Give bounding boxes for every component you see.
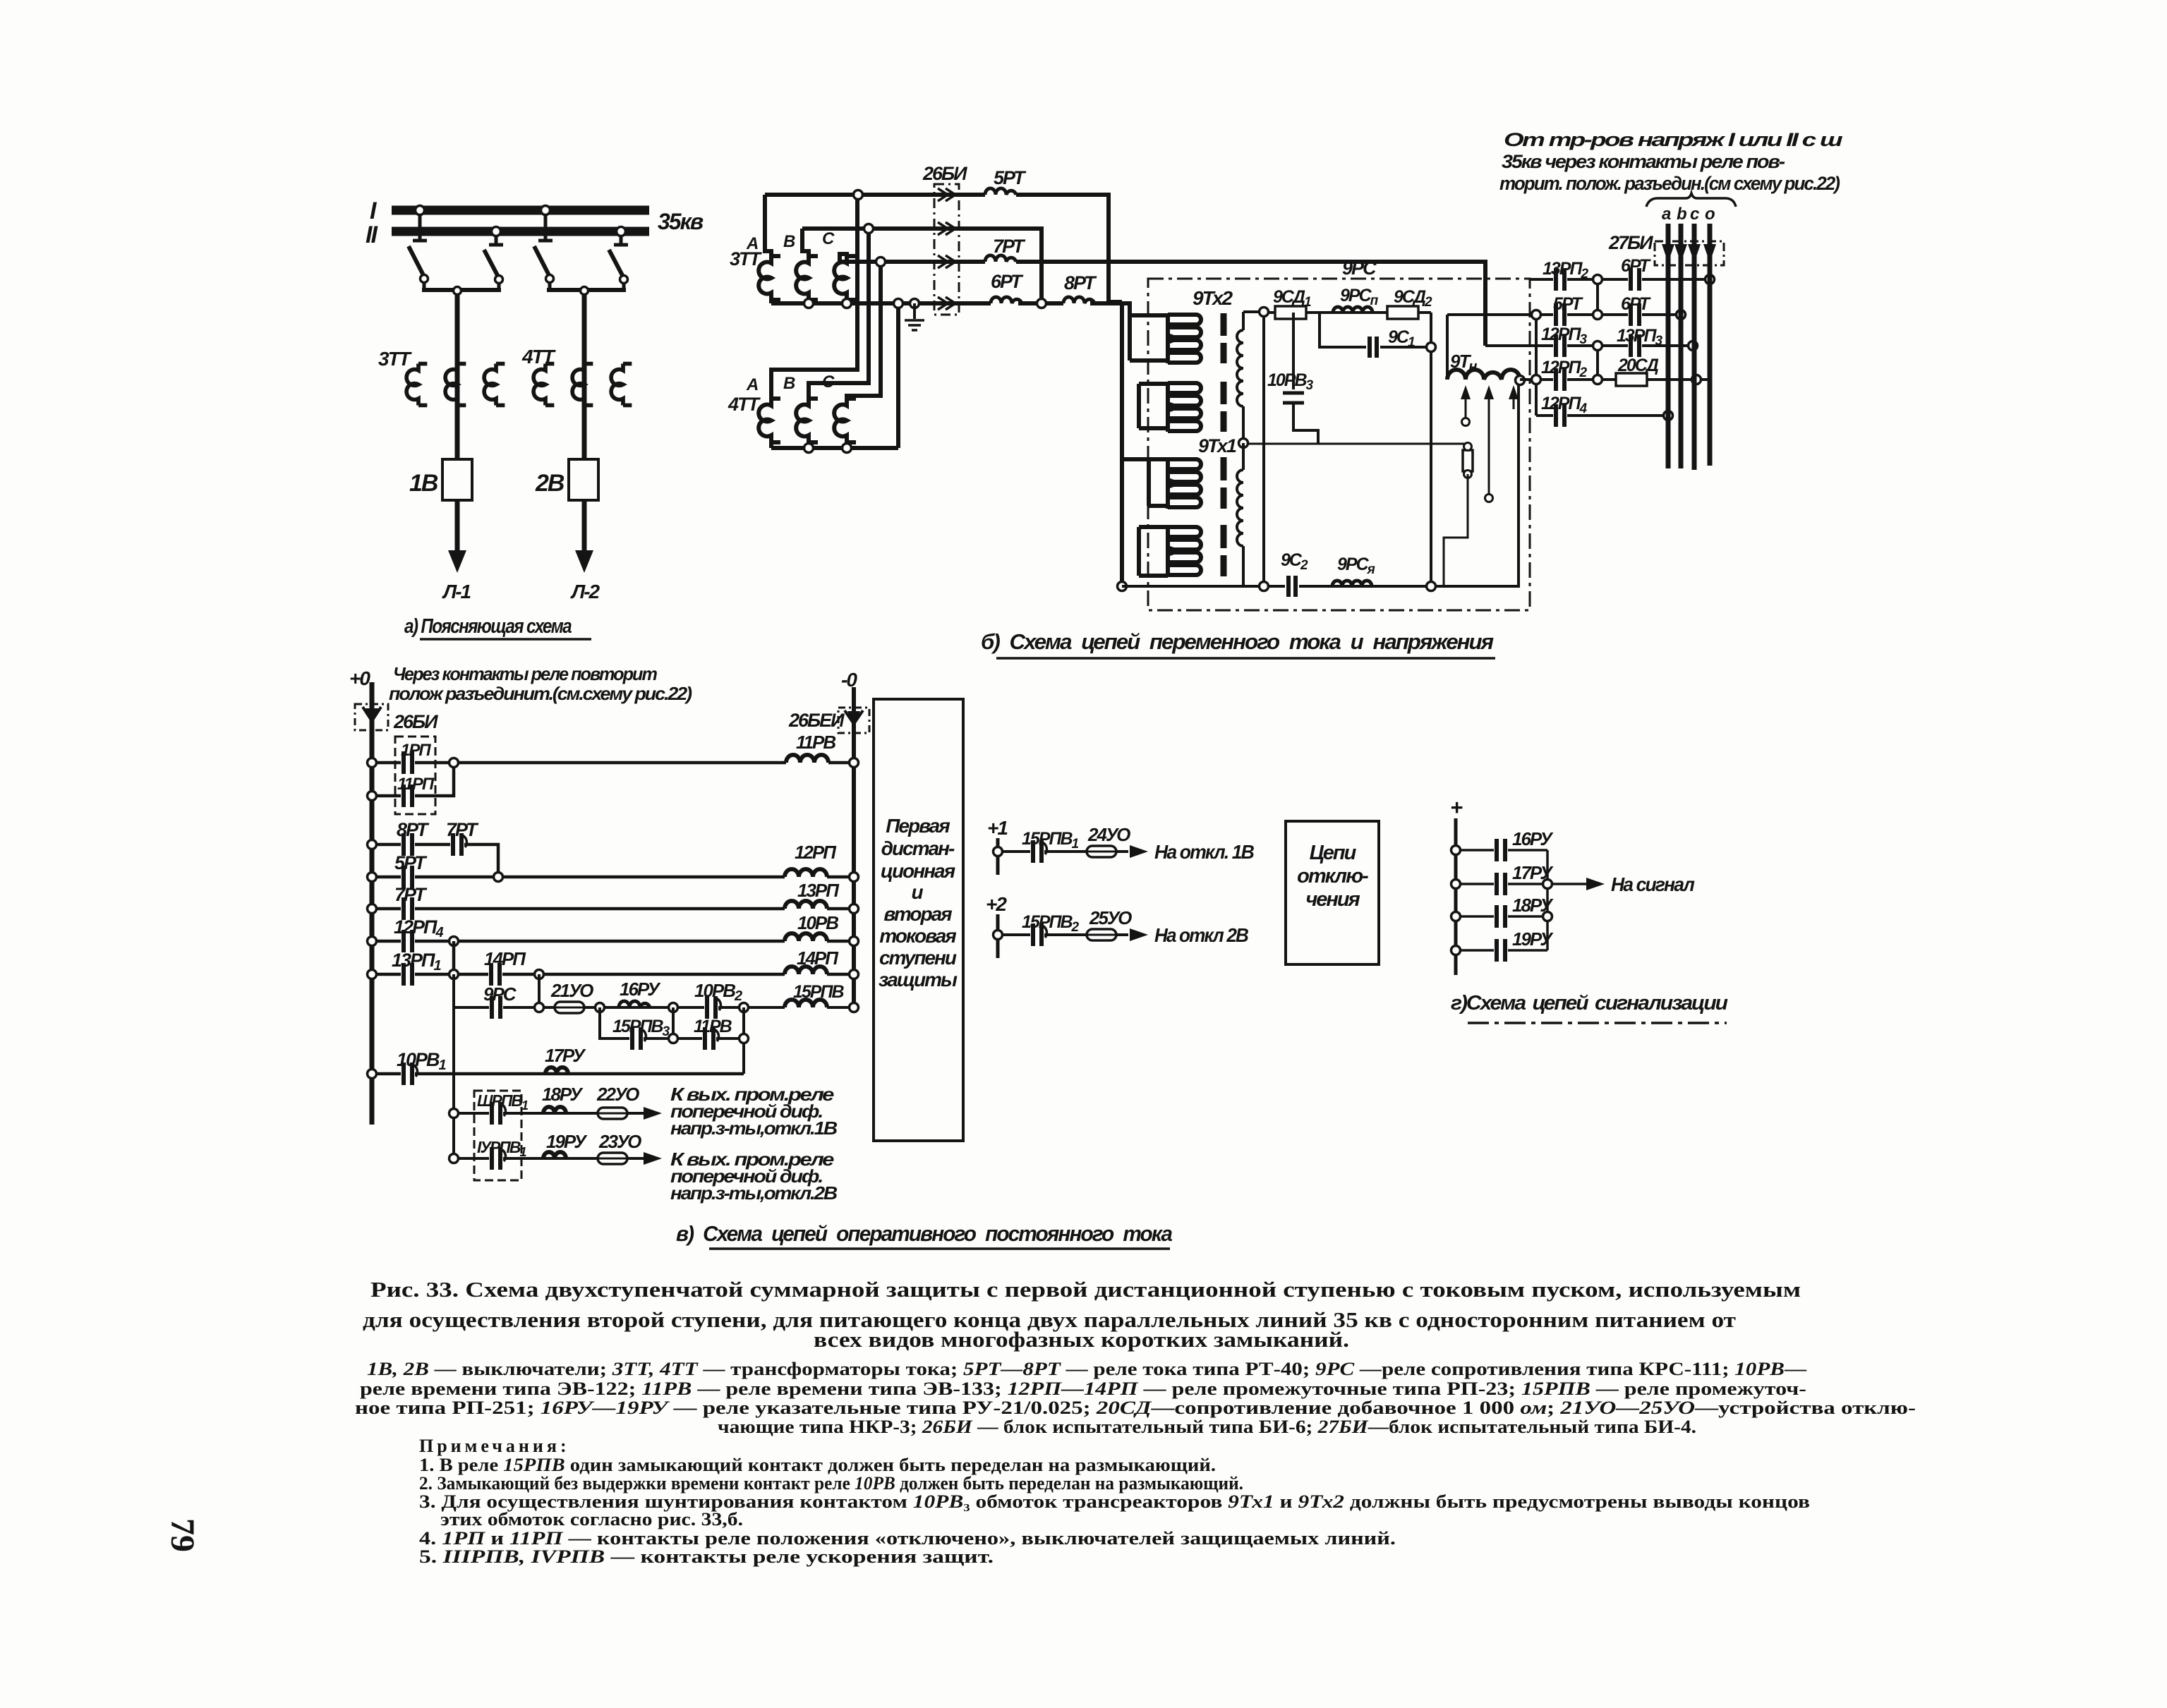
svg-text:Цепи: Цепи	[1310, 842, 1357, 864]
contact 13RP1	[392, 950, 441, 987]
wire row7 13RP1-14RP	[372, 941, 854, 974]
CT 4TT phase A	[759, 399, 780, 442]
svg-text:11РВ: 11РВ	[694, 1017, 732, 1036]
coil 17RU	[545, 1045, 586, 1074]
wire tap element to bottom	[1444, 474, 1468, 586]
legend	[355, 1359, 1916, 1437]
transreactor 9Tx2 label	[1193, 287, 1233, 309]
transreactor 9Tx1 primary winding 4	[1168, 525, 1201, 576]
svg-text:С: С	[822, 229, 835, 248]
svg-text:в) Схема цепей оперативного по: в) Схема цепей оперативного постоянного …	[676, 1221, 1173, 1246]
coil 12RP	[785, 842, 837, 877]
svg-text:+1: +1	[987, 817, 1008, 839]
wire feeder1 collector	[422, 287, 501, 460]
svg-text:напр.з-ты,откл.1В: напр.з-ты,откл.1В	[670, 1118, 837, 1139]
coil 16RU	[619, 979, 661, 1007]
svg-text:Примечания:: Примечания:	[419, 1436, 570, 1456]
wire row10 IIIRPV1-18RU-22UO	[454, 1112, 631, 1115]
wire signal row4	[1456, 949, 1547, 952]
node 9Tn out	[1516, 376, 1525, 385]
svg-text:17РУ: 17РУ	[545, 1045, 586, 1066]
tap resistor element	[1463, 443, 1473, 478]
wire secondary top to network	[1243, 310, 1264, 313]
contact 7RT-a	[446, 819, 479, 857]
fuse 25UO	[1087, 907, 1132, 940]
coil 8RT	[1063, 272, 1097, 303]
contact 12RP2	[1541, 358, 1587, 392]
wire row5 7RT-13RP	[372, 907, 854, 911]
contact 10RV3 branch	[1267, 313, 1318, 444]
svg-text:От тр-ров напряж I или II с ш: От тр-ров напряж I или II с ш	[1504, 129, 1843, 150]
wire transreactor feed verticals	[1122, 302, 1168, 586]
svg-text:16РУ: 16РУ	[620, 979, 661, 1000]
wire line1 phase A	[765, 195, 1122, 302]
9Tn tap 2	[1484, 385, 1494, 502]
node row8 junctions	[535, 1003, 859, 1012]
wire subrow 15RPV3/11RV	[600, 1007, 744, 1074]
wire feeder2 collector	[547, 287, 626, 460]
svg-text:7РТ: 7РТ	[394, 884, 428, 905]
wire RC bottom rail	[1122, 384, 1519, 586]
node signal junctions	[1451, 846, 1552, 955]
svg-text:1РП: 1РП	[401, 741, 431, 760]
CT 3TT group labels	[730, 229, 835, 269]
contact matrix row4	[1520, 378, 1712, 381]
svg-text:6РТ: 6РТ	[991, 271, 1024, 292]
box trip circuits	[1286, 821, 1379, 964]
9Tn tap 3	[1509, 385, 1519, 409]
svg-text:Л-1: Л-1	[442, 581, 471, 602]
svg-text:19РУ: 19РУ	[546, 1131, 588, 1152]
node row7 junctions	[368, 970, 859, 979]
svg-text:22УО: 22УО	[596, 1084, 639, 1105]
node row5 junctions	[368, 904, 859, 914]
wire arrow na signal	[1547, 873, 1694, 895]
node top junctions	[1260, 308, 1269, 317]
svg-text:а: а	[1662, 205, 1671, 224]
coil 5RT	[985, 167, 1027, 195]
svg-text:всех видов многофазных коротки: всех видов многофазных коротких замыкани…	[814, 1327, 1349, 1352]
text out row12	[670, 1149, 837, 1204]
svg-text:9РС: 9РС	[483, 983, 517, 1005]
node + rail signal	[1450, 795, 1463, 975]
note text from VT	[1499, 129, 1843, 194]
busbar II	[366, 222, 649, 248]
coil 13RP	[785, 880, 840, 909]
caption b	[981, 629, 1495, 658]
contact 8RT	[397, 819, 430, 857]
svg-text:26БЕИ: 26БЕИ	[788, 710, 845, 731]
svg-text:13РП: 13РП	[797, 880, 840, 901]
svg-text:ное типа РП-251; 16РУ—19РУ — р: ное типа РП-251; 16РУ—19РУ — реле указат…	[355, 1398, 1916, 1418]
svg-text:А: А	[746, 234, 758, 253]
svg-text:4ТТ: 4ТТ	[728, 394, 761, 415]
resistor 9SD2	[1387, 287, 1432, 319]
node junctions 4TT bar	[804, 444, 852, 453]
breaker 2B	[535, 459, 598, 500]
text out row10	[670, 1084, 837, 1139]
contact 15RPV3	[612, 1017, 670, 1051]
wire line2 phase B	[802, 229, 1042, 303]
svg-text:27БИ: 27БИ	[1608, 232, 1653, 253]
contact 14RP	[484, 948, 526, 987]
disconnector QS2-I	[534, 206, 554, 291]
wire row3 8RT-7RT	[372, 844, 498, 877]
wire line L-1 with arrow	[442, 500, 471, 602]
contact 15RPV2	[1022, 912, 1080, 947]
svg-text:напр.з-ты,откл.2В: напр.з-ты,откл.2В	[670, 1182, 837, 1204]
svg-text:На откл. 1В: На откл. 1В	[1154, 841, 1255, 863]
node 9Tx1	[1198, 435, 1248, 456]
transreactor 9Tx1 winding3 arrow	[1170, 478, 1184, 488]
contact 6RT-b	[1621, 294, 1652, 327]
svg-text:дистан-: дистан-	[881, 837, 955, 859]
contact IVRPV1	[477, 1138, 526, 1171]
transreactor 9Tx2 primary winding 2	[1168, 382, 1201, 432]
fuse 23UO	[598, 1131, 641, 1164]
CT 3TT phase B	[796, 256, 818, 300]
svg-text:В: В	[783, 232, 795, 251]
wire arrow out row12	[627, 1152, 662, 1165]
capacitor 9S2	[1281, 550, 1308, 598]
svg-text:14РП: 14РП	[484, 948, 526, 969]
svg-text:10РВ: 10РВ	[797, 912, 838, 933]
disconnector QS1-I	[409, 206, 428, 291]
coil 19RU	[543, 1131, 588, 1158]
node rail1 junction	[994, 847, 1003, 856]
big dash-dot box 9RS	[1148, 258, 1530, 610]
svg-text:8РТ: 8РТ	[397, 819, 430, 840]
wire left drop to rows 10-12	[452, 1007, 455, 1158]
contact 9RS	[483, 983, 517, 1020]
fuse 24UO	[1087, 824, 1130, 857]
svg-text:21УО: 21УО	[550, 980, 593, 1001]
transformer 9Tn	[1447, 315, 1536, 380]
node junctions on ac lines	[804, 190, 1046, 308]
svg-text:Рис. 33. Схема двухступенчатой: Рис. 33. Схема двухступенчатой суммарной…	[370, 1277, 1801, 1302]
svg-text:+0: +0	[349, 667, 370, 689]
test block 27BI	[1608, 232, 1724, 265]
svg-text:9Тх1: 9Тх1	[1198, 435, 1236, 456]
svg-text:9РС: 9РС	[1342, 258, 1377, 279]
svg-text:7РТ: 7РТ	[993, 236, 1026, 257]
wire trip row2	[998, 933, 1128, 936]
svg-text:9Тх2: 9Тх2	[1193, 287, 1233, 309]
svg-text:с: с	[1690, 205, 1699, 224]
fuse 21UO	[550, 980, 593, 1013]
wire row12 IVRPV1-19RU-23UO	[454, 1157, 631, 1160]
node row9 junction	[368, 1070, 377, 1079]
svg-text:25УО: 25УО	[1089, 907, 1132, 928]
svg-text:А: А	[746, 375, 758, 394]
CT 3TT (scheme a)	[378, 348, 505, 405]
resistor 20SD	[1616, 356, 1659, 386]
wire row9 10RV1-17RU	[372, 1072, 744, 1076]
wire vt lines abco	[1668, 224, 1710, 470]
test block 26BI left	[355, 704, 438, 732]
svg-text:Через контакты реле повторит: Через контакты реле повторит	[393, 663, 658, 684]
svg-text:20СД: 20СД	[1617, 356, 1659, 375]
transreactor 9Tx1 primary winding 3	[1168, 457, 1201, 509]
contact matrix row1	[1530, 278, 1713, 281]
svg-text:7РТ: 7РТ	[446, 819, 479, 840]
svg-text:15РПВ: 15РПВ	[793, 982, 844, 1002]
wire row4 5RT-12RP	[372, 876, 854, 879]
wire line3 phase C	[840, 262, 1485, 346]
page number 79	[164, 1518, 201, 1552]
transreactor 9Tx1 secondary	[1237, 443, 1243, 586]
coil 15RPV	[785, 982, 844, 1007]
svg-text:35кв: 35кв	[658, 209, 704, 234]
svg-text:16РУ: 16РУ	[1512, 828, 1554, 849]
svg-text:5РТ: 5РТ	[1553, 294, 1584, 314]
svg-text:4. 1РП и 11РП — контакты реле: 4. 1РП и 11РП — контакты реле положения …	[419, 1528, 1396, 1549]
coil 9RSp	[1333, 286, 1379, 313]
node row1-2 junctions	[368, 758, 859, 801]
contact 7RT-b	[394, 884, 428, 921]
svg-text:а) Поясняющая схема: а) Поясняющая схема	[404, 615, 572, 638]
wire 9S1 branch	[1320, 313, 1431, 347]
contact IIIRPV1	[477, 1091, 529, 1126]
dashed box III/IV RPV	[474, 1091, 521, 1180]
wire row1 1RP-11RV	[372, 761, 854, 765]
wire line4 common	[771, 303, 1130, 315]
notes	[419, 1436, 1810, 1567]
CT 4TT (scheme a)	[521, 346, 632, 405]
svg-text:этих обмоток согласно рис. 33,: этих обмоток согласно рис. 33,б.	[440, 1509, 743, 1530]
svg-text:3ТТ: 3ТТ	[378, 348, 413, 370]
wire arrow out row10	[627, 1107, 662, 1120]
svg-text:1В, 2В — выключатели; 3ТТ, 4ТТ: 1В, 2В — выключатели; 3ТТ, 4ТТ — трансфо…	[367, 1359, 1807, 1379]
svg-text:26БИ: 26БИ	[922, 163, 967, 184]
svg-text:15РПВ2: 15РПВ2	[1022, 912, 1080, 935]
svg-text:26БИ: 26БИ	[393, 711, 438, 732]
wire RC network left rail	[1262, 312, 1265, 586]
svg-text:15РПВ1: 15РПВ1	[1022, 829, 1079, 852]
svg-text:ционная: ционная	[881, 860, 955, 882]
svg-text:Первая: Первая	[886, 815, 950, 837]
contact 16RU	[1494, 828, 1554, 863]
transreactor 9Tx2 winding1 arrow	[1170, 334, 1184, 344]
node row3-4 junctions	[368, 840, 859, 882]
svg-text:23УО: 23УО	[598, 1131, 641, 1152]
svg-text:о: о	[1705, 205, 1715, 224]
contact 19RU	[1494, 928, 1554, 963]
svg-text:35кв через контакты реле пов-: 35кв через контакты реле пов-	[1502, 151, 1785, 172]
test block 26BEI right	[788, 708, 869, 733]
caption a	[404, 615, 591, 639]
CT 4TT phase C	[834, 399, 856, 442]
wire signal row1	[1456, 849, 1547, 852]
contact 12RP4	[1541, 394, 1587, 428]
wire row2 11RP	[372, 763, 454, 796]
svg-text:Л-2: Л-2	[570, 581, 600, 602]
node subrow junctions	[669, 1034, 749, 1043]
coil 7RT	[985, 236, 1026, 262]
transreactor 9Tx2 primary winding 1	[1168, 313, 1201, 363]
capacitor 9S1	[1366, 327, 1415, 358]
coil 18RU	[542, 1084, 584, 1113]
svg-text:24УО: 24УО	[1087, 824, 1130, 845]
transreactor 9Tx1 winding4 arrow	[1170, 546, 1184, 556]
wire 9Tx1 node line	[1248, 444, 1468, 450]
node bottom junctions	[1260, 582, 1436, 591]
svg-text:+: +	[1450, 795, 1463, 820]
contact 13RP2	[1543, 259, 1588, 292]
svg-text:11РП: 11РП	[397, 775, 435, 794]
ground	[905, 303, 924, 330]
wire signal right bus	[1546, 850, 1549, 950]
contact 17RU	[1494, 862, 1554, 897]
svg-text:IУРПВ1: IУРПВ1	[477, 1138, 526, 1159]
contact matrix row5	[1536, 414, 1668, 417]
node +2 rail	[986, 893, 1007, 958]
contact 12RP4	[394, 916, 443, 954]
svg-text:5РТ: 5РТ	[394, 852, 428, 873]
contact 11RP	[397, 775, 435, 808]
svg-text:реле времени типа ЭВ-122; 11РВ: реле времени типа ЭВ-122; 11РВ — реле вр…	[360, 1379, 1806, 1399]
wire signal row2	[1456, 883, 1547, 885]
disconnector QS2-II	[609, 227, 628, 291]
brace abco	[1646, 193, 1736, 224]
wire RC top line	[1264, 313, 1431, 586]
svg-text:15РПВ3: 15РПВ3	[612, 1017, 670, 1039]
contact 18RU	[1494, 895, 1554, 929]
wire 4TT common bar	[771, 303, 898, 448]
svg-text:6РТ: 6РТ	[1621, 256, 1652, 276]
wire line L-2 with arrow	[570, 500, 600, 602]
coil 9RSja	[1332, 555, 1375, 586]
node row12 junction	[449, 1154, 459, 1163]
svg-text:6РТ: 6РТ	[1621, 294, 1652, 314]
contact 12RP3	[1541, 325, 1587, 358]
svg-text:токовая: токовая	[879, 925, 956, 947]
node row10 junction	[449, 1109, 459, 1118]
caption g	[1451, 992, 1728, 1023]
caption v	[676, 1221, 1173, 1249]
figure caption	[363, 1277, 1801, 1352]
svg-text:ступени: ступени	[879, 947, 957, 969]
node 35kv label	[658, 209, 704, 234]
disconnector QS1-II	[484, 227, 503, 291]
wire row6 12RP4-10RV	[372, 940, 854, 943]
resistor 9SD1	[1273, 287, 1311, 319]
CT 4TT group labels	[728, 373, 835, 415]
svg-text:и: и	[911, 881, 923, 903]
transreactor 9Tx2 winding2 arrow	[1170, 402, 1184, 412]
svg-text:11РВ: 11РВ	[796, 732, 835, 753]
svg-text:отклю-: отклю-	[1297, 865, 1368, 888]
svg-text:На откл 2В: На откл 2В	[1154, 924, 1249, 946]
svg-text:б) Схема цепей переменного ток: б) Схема цепей переменного тока и напряж…	[981, 629, 1494, 654]
CT 3TT phase C	[834, 256, 856, 300]
test block 26BI	[922, 163, 967, 315]
node +1 rail	[987, 817, 1008, 875]
CT 3TT phase A	[759, 256, 780, 300]
contact 11RV-k	[694, 1017, 732, 1051]
busbar I	[370, 198, 649, 224]
wire trip row1	[998, 850, 1128, 853]
contact matrix row2	[1447, 313, 1681, 316]
CT 4TT phase B	[796, 399, 818, 442]
contact 6RT-a	[1621, 256, 1652, 292]
wire matrix left rail	[1535, 315, 1538, 416]
svg-text:На сигнал: На сигнал	[1611, 873, 1694, 895]
wire matrix mid rail	[1596, 279, 1599, 380]
coil 14RP	[785, 947, 839, 974]
svg-text:защиты: защиты	[879, 969, 958, 991]
node 9S1 junction	[1427, 343, 1436, 352]
fuse 22UO	[596, 1084, 639, 1119]
wire 3TT risers	[765, 195, 847, 303]
svg-text:12РП: 12РП	[795, 842, 837, 863]
coil 10RV	[785, 912, 838, 941]
contact 5RT	[394, 852, 428, 890]
svg-text:1. В реле 15РПВ один замыкающи: 1. В реле 15РПВ один замыкающий контакт …	[419, 1455, 1216, 1475]
wire arrow trip1	[1130, 841, 1255, 863]
node rail2 junction	[994, 931, 1003, 940]
svg-text:2В: 2В	[535, 470, 565, 497]
note text top	[389, 663, 692, 704]
node matrix junctions	[1532, 275, 1715, 420]
node +0 rail	[349, 667, 372, 1125]
breaker 1B	[409, 459, 472, 500]
svg-text:вторая: вторая	[883, 903, 952, 925]
transreactor core bars	[1221, 313, 1227, 576]
svg-text:г)Схема цепей сигнализации: г)Схема цепей сигнализации	[1451, 992, 1728, 1014]
svg-text:8РТ: 8РТ	[1064, 272, 1097, 293]
svg-text:чения: чения	[1305, 888, 1360, 911]
svg-text:5. IIIРПВ, IVРПВ — контакты ре: 5. IIIРПВ, IVРПВ — контакты реле ускорен…	[419, 1546, 994, 1567]
svg-text:18РУ: 18РУ	[542, 1084, 584, 1105]
svg-text:5РТ: 5РТ	[994, 167, 1027, 188]
dashed box 1RP/11RP	[395, 737, 435, 814]
contact matrix row3	[1485, 344, 1693, 347]
contact 1RP	[401, 741, 431, 775]
box first stage	[874, 699, 963, 1141]
wire 4TT risers	[771, 195, 881, 448]
svg-text:+2: +2	[986, 893, 1007, 915]
contact 10RV2	[694, 980, 742, 1020]
svg-text:2. Замыкающий без выдержки вре: 2. Замыкающий без выдержки времени конта…	[419, 1473, 1243, 1494]
coil 11RV	[786, 732, 835, 763]
contact 15RPV1	[1022, 829, 1079, 864]
contact 5RT	[1553, 294, 1584, 327]
wire signal row3	[1456, 915, 1547, 918]
contact 13RP3	[1617, 326, 1662, 358]
node bottom junction	[1118, 582, 1127, 591]
transreactor 9Tx2 secondary	[1237, 312, 1243, 443]
node -0 rail	[841, 669, 857, 1005]
svg-text:b: b	[1677, 205, 1686, 224]
wire row8 9RS-15RPV	[454, 974, 854, 1007]
svg-text:В: В	[783, 374, 795, 393]
svg-text:79: 79	[164, 1518, 201, 1552]
svg-text:чающие типа НКР-3; 26БИ — блок: чающие типа НКР-3; 26БИ — блок испытател…	[718, 1417, 1696, 1437]
svg-text:полож разъединит.(см.схему рис: полож разъединит.(см.схему рис.22)	[389, 683, 692, 704]
node row6 junctions	[368, 937, 859, 946]
svg-text:1В: 1В	[409, 470, 438, 497]
svg-text:торит. полож. разъедин.(см схе: торит. полож. разъедин.(см схему рис.22)	[1499, 173, 1840, 194]
coil 6RT	[991, 271, 1024, 303]
wire arrow trip2	[1130, 924, 1249, 946]
contact 10RV1	[397, 1049, 447, 1086]
svg-text:14РП: 14РП	[797, 947, 839, 969]
9Tn tap 1	[1461, 385, 1471, 426]
